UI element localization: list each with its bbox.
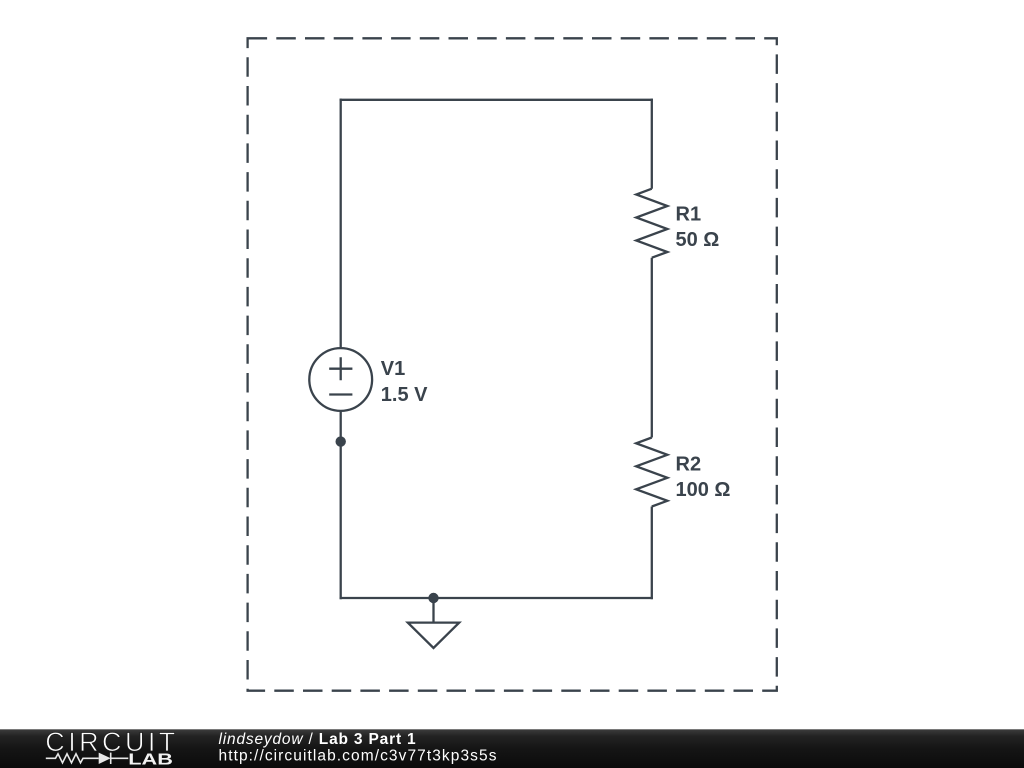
wire: left vertical (top of V1) — [340, 99, 342, 349]
wire: bottom horizontal — [340, 597, 653, 599]
svg-text:http://circuitlab.com/c3v77t3k: http://circuitlab.com/c3v77t3kp3s5s — [219, 748, 498, 765]
junction: V1 negative node — [336, 436, 346, 446]
svg-text:V1: V1 — [381, 358, 405, 380]
junction: ground node — [428, 593, 438, 603]
wire: left vertical (below V1) — [340, 411, 342, 599]
svg-text:100 Ω: 100 Ω — [676, 479, 731, 501]
wire: ground stem — [432, 598, 434, 623]
V1 plus sign — [329, 357, 352, 380]
CircuitLab logo diode triangle — [99, 753, 111, 764]
wire: right vertical (between R1 and R2) — [651, 258, 653, 438]
schematic boundary (dashed frame) — [248, 38, 777, 690]
wire: right vertical (top lead of R1) — [651, 99, 653, 189]
svg-text:R1: R1 — [676, 203, 702, 225]
resistor R1 — [636, 189, 667, 258]
svg-text:50 Ω: 50 Ω — [676, 229, 720, 251]
voltage source V1 — [309, 348, 372, 411]
svg-text:1.5 V: 1.5 V — [381, 384, 428, 406]
wire: top horizontal — [340, 99, 653, 101]
resistor R2 — [636, 438, 667, 507]
svg-text:LAB: LAB — [128, 752, 173, 768]
CircuitLab logo wire glyph (resistor + diode) — [46, 753, 129, 764]
svg-text:R2: R2 — [676, 453, 702, 475]
svg-text:lindseydow / Lab 3 Part 1: lindseydow / Lab 3 Part 1 — [219, 731, 417, 748]
footer bar top edge line — [0, 729, 1024, 730]
wire: right vertical (bottom lead of R2) — [651, 507, 653, 600]
ground symbol — [408, 623, 459, 648]
V1 minus sign — [329, 393, 352, 395]
